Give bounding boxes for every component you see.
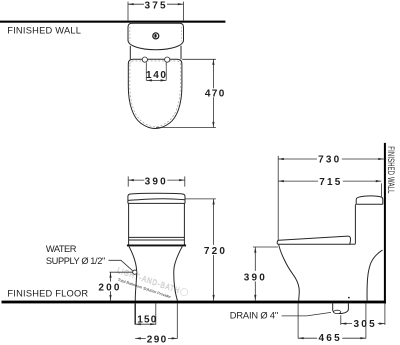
- dim 140 extension lines: [146, 62, 166, 80]
- svg-text:375: 375: [144, 1, 167, 12]
- dim 375 line: [128, 3, 183, 5]
- finished wall line (top): [0, 21, 225, 23]
- dim 390 extension lines: [128, 176, 185, 186]
- svg-text:FINISHED FLOOR: FINISHED FLOOR: [7, 288, 88, 298]
- svg-text:470: 470: [205, 89, 226, 100]
- tank lid (side): [356, 196, 383, 204]
- base back profile: [367, 250, 383, 301]
- svg-text:140: 140: [146, 70, 168, 81]
- dim 465 extensions: [298, 303, 366, 338]
- dim 305 line: [341, 323, 385, 325]
- wall extension below floor: [384, 303, 386, 325]
- dim 390 side line: [254, 247, 256, 301]
- flush button: [153, 33, 159, 39]
- bowl front profile: [279, 244, 300, 300]
- svg-text:305: 305: [354, 319, 377, 330]
- tank lid lower edge curve: [128, 199, 185, 201]
- tank lid bottom line: [128, 202, 185, 204]
- dim 200 line: [110, 272, 112, 300]
- bowl top line under tank: [350, 243, 356, 245]
- seat inner dashed outline: [130, 61, 180, 127]
- dim 465 line: [298, 337, 366, 339]
- finished wall line (right): [384, 143, 386, 304]
- dim 730/715 left extension line: [277, 156, 279, 240]
- extension lines below floor: [134, 303, 136, 324]
- svg-text:150: 150: [137, 314, 157, 325]
- svg-text:715: 715: [319, 177, 342, 188]
- hinge right: [165, 57, 170, 62]
- svg-text:390: 390: [244, 273, 267, 284]
- dim 140 line: [146, 79, 166, 81]
- drain pipe (side): [333, 303, 349, 313]
- dim 200 extension line: [110, 271, 133, 273]
- dim 720 extension line: [185, 198, 216, 200]
- watermark text LIGHT-AND-BATH: [114, 266, 189, 304]
- dim 390 line: [128, 179, 185, 181]
- tank body sides below lid: [130, 46, 181, 59]
- dim 715 right extension: [380, 183, 382, 196]
- finished floor line: [2, 301, 386, 304]
- seat/bowl outline (top view): [128, 59, 182, 128]
- seat edge thick line: [127, 245, 186, 247]
- svg-text:DRAIN Ø 4": DRAIN Ø 4": [230, 311, 279, 321]
- svg-text:200: 200: [98, 282, 121, 293]
- dim 470 line: [212, 59, 214, 127]
- svg-text:FINISHED WALL: FINISHED WALL: [386, 146, 396, 193]
- dim 290 line: [135, 337, 177, 339]
- svg-text:290: 290: [147, 335, 168, 345]
- tank lid (front): [128, 193, 185, 203]
- svg-text:730: 730: [318, 155, 341, 166]
- dim 720 line: [213, 199, 215, 301]
- tank front edge (side): [354, 204, 356, 244]
- drain leader: [282, 312, 331, 316]
- svg-text:720: 720: [204, 246, 227, 257]
- tank hidden edges dashed: [130, 27, 182, 41]
- toilet tank (top view): [128, 23, 184, 50]
- dim 140 text bg: [147, 66, 166, 79]
- dot near base back: [348, 297, 350, 299]
- tank bottom lines: [129, 237, 185, 240]
- hinge left: [142, 57, 147, 62]
- pedestal right edge: [174, 246, 183, 300]
- dim 730 line: [278, 158, 384, 160]
- svg-text:390: 390: [145, 176, 168, 187]
- dim 375 extension lines: [128, 2, 183, 21]
- dim 470 extension lines: [156, 59, 216, 127]
- dim 305 left extension: [340, 315, 342, 325]
- tank body sides (front): [129, 203, 185, 244]
- svg-text:465: 465: [319, 333, 342, 344]
- svg-text:WATER: WATER: [46, 244, 77, 254]
- svg-text:SUPPLY Ø 1/2": SUPPLY Ø 1/2": [46, 256, 106, 266]
- svg-text:FINISHED WALL: FINISHED WALL: [7, 26, 81, 36]
- dim 375 arrows: [128, 3, 134, 5]
- dim 390 side extension: [253, 246, 278, 248]
- water supply leader: [109, 260, 134, 271]
- dim 715 line: [278, 180, 381, 182]
- water supply circle: [133, 270, 137, 274]
- seat wedge (side): [277, 236, 350, 244]
- pedestal left edge: [129, 246, 137, 300]
- dim 150 line: [135, 323, 156, 325]
